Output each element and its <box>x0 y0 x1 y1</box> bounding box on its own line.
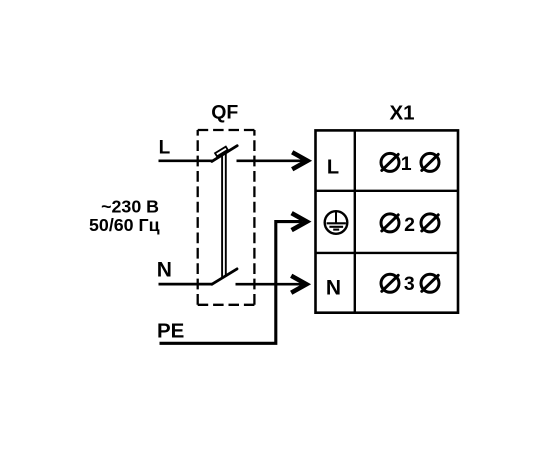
svg-text:N: N <box>326 277 341 300</box>
svg-text:X1: X1 <box>389 102 414 125</box>
svg-text:3: 3 <box>404 273 415 295</box>
svg-text:QF: QF <box>211 102 238 124</box>
svg-text:~230 В: ~230 В <box>101 196 159 216</box>
svg-text:PE: PE <box>157 320 184 343</box>
svg-text:2: 2 <box>404 214 415 236</box>
svg-text:N: N <box>157 258 172 281</box>
svg-text:L: L <box>159 137 171 158</box>
svg-text:L: L <box>327 157 339 179</box>
svg-text:50/60 Гц: 50/60 Гц <box>89 215 160 235</box>
svg-text:1: 1 <box>401 153 412 175</box>
